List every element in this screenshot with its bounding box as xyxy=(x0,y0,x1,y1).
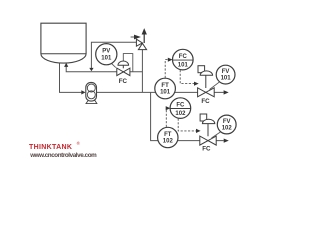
wire: riser from main pipe up to relief valve xyxy=(141,50,143,93)
svg-text:101: 101 xyxy=(178,62,189,68)
svg-text:FV: FV xyxy=(223,119,231,125)
svg-text:www.cncontrolvalve.com: www.cncontrolvalve.com xyxy=(29,152,97,159)
instrument FT101 xyxy=(155,78,176,99)
wire: tank outlet down to pump suction xyxy=(60,62,82,92)
wire: PSV feed line with corner at (91.4,42.2) xyxy=(91,42,136,68)
wire: branch down to flow line 2 xyxy=(151,92,224,140)
valve FV102 body (control valve with positioner) xyxy=(200,114,207,121)
wire: signal FT102 to FC102 (dashed) xyxy=(165,108,167,127)
svg-text:FC: FC xyxy=(179,54,188,60)
tank T (vessel with dished bottom) xyxy=(41,23,86,63)
wire: signal FT101 to FC101 (dashed) xyxy=(165,60,168,78)
wire: pipe from pump discharge to FV101 outlet (main flow line 1) xyxy=(97,91,224,93)
svg-text:102: 102 xyxy=(175,111,186,117)
svg-text:FT: FT xyxy=(161,83,169,89)
pump P (rotary pump capsule) xyxy=(86,101,97,104)
instrument FV101 xyxy=(210,81,221,89)
svg-text:FC: FC xyxy=(202,146,211,153)
instrument PV101 xyxy=(111,63,116,67)
svg-text:101: 101 xyxy=(160,90,171,96)
wire: signal FC101 to FV101 positioner (dashed) xyxy=(180,70,194,84)
valve FV101 body (control valve with positioner) xyxy=(198,66,205,73)
node: small filled arrow near relief valve inlet xyxy=(131,36,134,38)
svg-text:FC: FC xyxy=(119,78,128,85)
instrument FC102 (shared display) xyxy=(170,98,191,119)
svg-text:102: 102 xyxy=(222,126,233,132)
node: flow arrow at end of line 1 xyxy=(224,90,229,94)
svg-text:THINKTANK: THINKTANK xyxy=(29,144,72,151)
svg-text:102: 102 xyxy=(163,139,174,145)
wire: recycle line from riser through PCV back to tank xyxy=(66,67,142,72)
svg-text:PV: PV xyxy=(102,49,110,55)
svg-text:FV: FV xyxy=(222,69,230,75)
svg-text:101: 101 xyxy=(221,76,232,82)
svg-text:FC: FC xyxy=(176,103,185,109)
svg-text:101: 101 xyxy=(101,55,112,61)
node: arrow down onto recycle pipe xyxy=(89,68,93,71)
instrument FC101 (shared display) xyxy=(173,49,194,70)
relief valve PSV (angle valve with vent arrow) xyxy=(136,39,142,46)
instrument FV102 xyxy=(212,131,222,138)
node: flow arrow into pump xyxy=(81,90,85,94)
svg-text:FT: FT xyxy=(164,132,172,138)
node: arrow up into tank bottom xyxy=(64,63,68,67)
node: flow arrow at end of line 2 xyxy=(224,139,229,143)
instrument FT102 xyxy=(158,127,178,147)
wire: signal FC102 to FV102 positioner (dashed) xyxy=(178,119,196,131)
control valve PCV (pressure control valve on recycle line) xyxy=(123,54,133,72)
svg-text:FC: FC xyxy=(201,98,210,105)
